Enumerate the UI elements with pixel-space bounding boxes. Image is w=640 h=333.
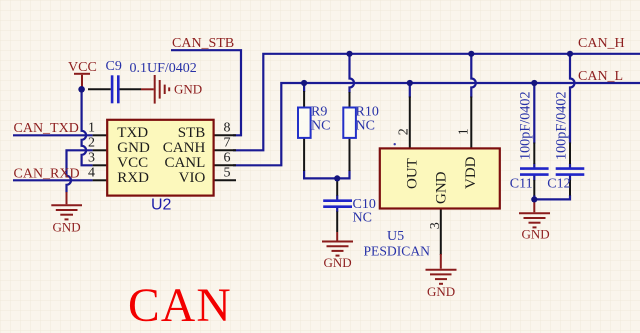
svg-text:NC: NC [311,119,330,134]
svg-text:VCC: VCC [68,60,97,75]
svg-text:C9: C9 [106,59,122,74]
svg-text:C12: C12 [547,176,570,191]
svg-text:100pF/0402: 100pF/0402 [518,91,534,160]
svg-text:1: 1 [88,121,95,136]
svg-text:OUT: OUT [404,158,420,189]
svg-text:1: 1 [457,128,472,135]
svg-text:GND: GND [434,171,450,204]
svg-text:RXD: RXD [117,170,149,186]
svg-text:CANH: CANH [163,140,206,156]
svg-text:CANL: CANL [164,155,205,171]
svg-text:CAN_TXD: CAN_TXD [14,121,79,136]
svg-text:VCC: VCC [117,155,148,171]
svg-text:GND: GND [117,140,150,156]
svg-text:GND: GND [427,284,455,299]
svg-text:GND: GND [522,227,550,242]
svg-text:5: 5 [224,166,231,181]
svg-text:GND: GND [324,255,352,270]
svg-text:0.1UF/0402: 0.1UF/0402 [130,61,197,76]
svg-text:8: 8 [224,121,231,136]
svg-text:U2: U2 [151,197,172,214]
svg-text:NC: NC [356,119,375,134]
svg-text:PESDICAN: PESDICAN [364,244,431,259]
svg-text:R9: R9 [311,105,327,120]
svg-text:4: 4 [88,166,95,181]
svg-text:CAN_RXD: CAN_RXD [14,166,80,181]
svg-text:VDD: VDD [463,156,479,189]
svg-text:3: 3 [428,222,443,229]
svg-text:CAN_STB: CAN_STB [172,36,234,51]
svg-text:6: 6 [224,151,231,166]
svg-text:C11: C11 [510,176,533,191]
svg-text:CAN: CAN [128,280,232,332]
svg-text:3: 3 [88,151,95,166]
svg-text:NC: NC [353,211,372,226]
svg-text:TXD: TXD [117,125,148,141]
svg-text:CAN_H: CAN_H [578,36,625,51]
svg-text:CAN_L: CAN_L [578,69,623,84]
svg-text:VIO: VIO [179,170,206,186]
svg-text:2: 2 [88,136,95,151]
svg-text:GND: GND [53,220,81,235]
svg-text:STB: STB [178,125,206,141]
svg-text:100pF/0402: 100pF/0402 [554,91,570,160]
svg-text:7: 7 [224,136,231,151]
svg-text:U5: U5 [387,229,404,244]
svg-text:2: 2 [396,128,411,135]
svg-text:GND: GND [174,81,202,96]
svg-text:R10: R10 [356,105,379,120]
